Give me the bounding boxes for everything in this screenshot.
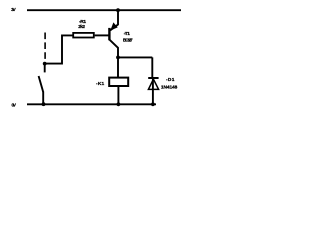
svg-text:-T1: -T1	[124, 31, 131, 37]
svg-text:BC327: BC327	[123, 37, 133, 43]
svg-text:1N4148: 1N4148	[161, 84, 178, 90]
svg-text:3V: 3V	[11, 7, 16, 13]
svg-text:2k2: 2k2	[78, 24, 85, 30]
svg-text:-D1: -D1	[166, 77, 175, 83]
svg-text:-K1: -K1	[96, 81, 105, 87]
